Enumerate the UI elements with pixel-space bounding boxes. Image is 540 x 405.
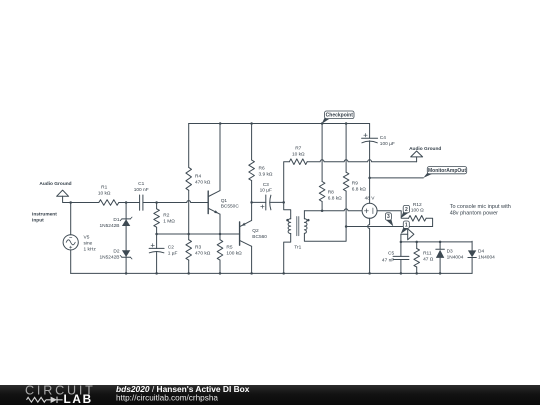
svg-text:C2: C2 — [168, 245, 174, 251]
svg-text:10 µF: 10 µF — [260, 187, 272, 193]
svg-text:1 µF: 1 µF — [168, 251, 178, 257]
svg-text:R4: R4 — [195, 174, 201, 180]
svg-text:R2: R2 — [163, 213, 169, 219]
svg-text:Audio Ground: Audio Ground — [39, 181, 71, 187]
svg-text:R1: R1 — [101, 185, 107, 191]
svg-text:Input: Input — [32, 217, 44, 223]
svg-text:LAB: LAB — [64, 392, 93, 405]
svg-text:Instrument: Instrument — [32, 211, 57, 217]
svg-text:BC550C: BC550C — [221, 204, 240, 210]
svg-text:Checkpoint: Checkpoint — [326, 113, 354, 119]
svg-text:R12: R12 — [413, 202, 422, 208]
svg-text:2: 2 — [405, 207, 408, 213]
svg-text:48v phantom power: 48v phantom power — [450, 210, 498, 216]
svg-text:48 V: 48 V — [365, 195, 376, 201]
svg-text:sine: sine — [84, 240, 93, 246]
svg-text:Q1: Q1 — [221, 198, 228, 204]
svg-text:6.8 kΩ: 6.8 kΩ — [352, 186, 366, 192]
svg-text:470 kΩ: 470 kΩ — [195, 251, 211, 257]
svg-text:470 kΩ: 470 kΩ — [195, 180, 211, 186]
svg-text:100 Ω: 100 Ω — [411, 208, 424, 214]
svg-text:6.8 kΩ: 6.8 kΩ — [328, 196, 342, 202]
svg-text:D1: D1 — [113, 217, 119, 223]
svg-text:http://circuitlab.com/crhpsha: http://circuitlab.com/crhpsha — [116, 393, 218, 402]
svg-text:1N5242B: 1N5242B — [99, 223, 119, 229]
svg-text:1 kHz: 1 kHz — [84, 246, 97, 252]
svg-text:R9: R9 — [352, 180, 358, 186]
svg-text:V5: V5 — [84, 234, 90, 240]
svg-text:C3: C3 — [263, 182, 269, 188]
svg-text:Audio Ground: Audio Ground — [409, 146, 441, 152]
svg-text:C5: C5 — [388, 251, 394, 257]
svg-text:Q2: Q2 — [252, 228, 259, 234]
svg-text:1N4004: 1N4004 — [447, 255, 464, 261]
svg-text:To console mic input with: To console mic input with — [450, 204, 511, 210]
svg-text:47 Ω: 47 Ω — [423, 257, 434, 263]
svg-text:1N4004: 1N4004 — [478, 255, 495, 261]
svg-text:R6: R6 — [259, 166, 265, 172]
svg-text:10 kΩ: 10 kΩ — [98, 191, 111, 197]
svg-text:R5: R5 — [226, 245, 232, 251]
svg-text:Tr1: Tr1 — [294, 245, 301, 251]
svg-text:MonitorAmpOut: MonitorAmpOut — [428, 168, 466, 174]
svg-text:100 nF: 100 nF — [134, 187, 149, 193]
svg-text:1: 1 — [405, 222, 408, 228]
svg-text:3: 3 — [387, 214, 390, 220]
svg-text:1N5242B: 1N5242B — [99, 255, 119, 261]
svg-text:R7: R7 — [295, 146, 301, 152]
svg-text:D4: D4 — [478, 249, 484, 255]
svg-text:D2: D2 — [113, 249, 119, 255]
svg-text:1 MΩ: 1 MΩ — [163, 219, 175, 225]
svg-text:100 kΩ: 100 kΩ — [226, 251, 242, 257]
svg-text:BC560: BC560 — [252, 234, 267, 240]
svg-text:C4: C4 — [380, 135, 386, 141]
svg-text:R8: R8 — [328, 190, 334, 196]
svg-text:D3: D3 — [447, 249, 453, 255]
svg-text:C1: C1 — [138, 181, 144, 187]
svg-text:R3: R3 — [195, 245, 201, 251]
svg-text:R11: R11 — [423, 251, 432, 257]
svg-text:3.9 kΩ: 3.9 kΩ — [259, 172, 273, 178]
svg-text:100 µF: 100 µF — [380, 141, 395, 147]
svg-text:47 nF: 47 nF — [382, 257, 394, 263]
svg-text:10 kΩ: 10 kΩ — [292, 152, 305, 158]
